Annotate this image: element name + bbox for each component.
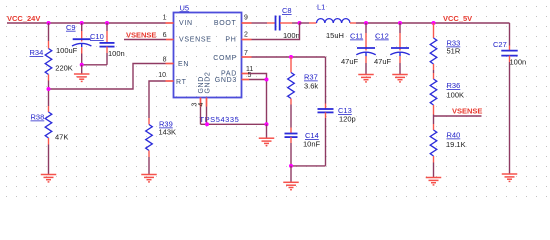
pin 10 RT stub: [166, 80, 174, 82]
junction on rail at C9: [80, 21, 84, 25]
svg-text:15uH: 15uH: [326, 31, 344, 40]
svg-text:C9: C9: [66, 23, 76, 32]
junction C14/C13 gnd: [289, 164, 293, 168]
junction R34/R38/EN: [47, 87, 51, 91]
resistor R39: [149, 81, 166, 118]
pin 3 GND stub: [200, 98, 202, 107]
wire C9/C10 bottoms: [82, 64, 107, 66]
junction gnd net: [265, 122, 269, 126]
capacitor C12: [399, 23, 401, 33]
wire PH to L1 node: [252, 23, 300, 40]
svg-text:EN: EN: [178, 61, 189, 68]
svg-text:19.1K: 19.1K: [446, 140, 466, 149]
junction C9 bottom: [80, 63, 84, 67]
svg-text:47uF: 47uF: [374, 57, 392, 66]
svg-text:C10: C10: [90, 32, 104, 41]
svg-text:R40: R40: [447, 131, 461, 140]
pin 4 GND2 stub: [206, 98, 208, 107]
ground below R40: [426, 177, 442, 179]
svg-text:C8: C8: [282, 6, 292, 15]
wire BOOT to C8: [252, 22, 268, 24]
svg-text:6: 6: [163, 32, 167, 39]
resistor R33: [433, 23, 435, 38]
svg-text:47K: 47K: [55, 133, 68, 142]
ground below PAD/GND3: [266, 124, 268, 138]
svg-text:C27: C27: [493, 40, 507, 49]
junction on rail at C10: [105, 21, 109, 25]
inductor L1: [300, 22, 310, 24]
junction COMP/R37: [289, 55, 293, 59]
pin 11 PAD stub: [242, 73, 250, 75]
resistor R40: [433, 116, 435, 124]
svg-text:7: 7: [244, 50, 248, 57]
svg-text:100n: 100n: [108, 49, 125, 58]
capacitor C10: [106, 23, 108, 31]
svg-text:120p: 120p: [339, 115, 356, 124]
ground below C12: [392, 74, 408, 76]
resistor R37: [290, 57, 292, 73]
junction R33: [432, 21, 436, 25]
resistor R34: [48, 23, 50, 41]
svg-text:100n: 100n: [283, 31, 300, 40]
svg-text:51R: 51R: [447, 47, 461, 56]
svg-text:143K: 143K: [159, 128, 177, 137]
pin 8 EN stub: [166, 63, 174, 65]
resistor R38: [48, 89, 50, 106]
svg-text:220K: 220K: [55, 64, 73, 73]
svg-text:R34: R34: [30, 48, 44, 57]
wire C8 to PH node: [280, 22, 292, 24]
svg-text:3.6k: 3.6k: [304, 82, 318, 91]
wire rail to C27: [509, 23, 511, 46]
resistor R36: [433, 73, 435, 79]
svg-text:2: 2: [244, 32, 248, 39]
svg-text:10: 10: [158, 72, 166, 79]
svg-text:9: 9: [244, 15, 248, 22]
capacitor C14: [290, 128, 292, 134]
svg-text:R38: R38: [31, 113, 45, 122]
wire VSENSE stub to pin 6: [124, 39, 166, 41]
pin 1 VIN stub: [166, 22, 174, 24]
wire EN net: [49, 64, 166, 90]
svg-text:VSENSE: VSENSE: [452, 107, 482, 116]
svg-text:VCC_5V: VCC_5V: [443, 14, 472, 23]
svg-text:VCC_24V: VCC_24V: [7, 14, 40, 23]
svg-text:R36: R36: [447, 81, 461, 90]
svg-text:GND3: GND3: [215, 77, 237, 84]
junction C12: [398, 21, 402, 25]
pin 2 PH stub: [242, 39, 252, 41]
wire C13/C14 bottoms: [291, 165, 326, 167]
svg-text:10nF: 10nF: [303, 140, 321, 149]
capacitor C11: [365, 23, 367, 33]
svg-text:1: 1: [163, 15, 167, 22]
wire PAD/GND3 to ground: [249, 74, 267, 125]
wire pins 3,4 down to ground rail: [200, 107, 202, 125]
svg-text:R37: R37: [304, 73, 318, 82]
svg-text:BOOT: BOOT: [214, 20, 237, 27]
svg-text:L1: L1: [317, 3, 325, 12]
svg-text:8: 8: [163, 57, 167, 64]
wire VCC_24V rail: [7, 22, 166, 24]
capacitor C13 branch: [325, 57, 327, 104]
ground below C11: [358, 74, 374, 76]
ground below C27: [502, 173, 518, 175]
junction on rail at R34: [47, 21, 51, 25]
IC U5 TPS54335 regulator body: [174, 13, 242, 98]
svg-text:C11: C11: [350, 32, 363, 41]
junction C11: [364, 21, 368, 25]
svg-text:PH: PH: [225, 37, 236, 44]
wire COMP net: [252, 56, 326, 58]
svg-text:GND2: GND2: [205, 72, 212, 94]
svg-text:COMP: COMP: [213, 55, 237, 62]
svg-text:VSENSE: VSENSE: [179, 37, 212, 44]
svg-text:VIN: VIN: [179, 20, 193, 27]
pin 6 VSENSE stub: [166, 39, 174, 41]
pin 9 BOOT stub: [242, 22, 252, 24]
svg-text:U5: U5: [180, 3, 190, 12]
junction BOOT/PH/L1: [298, 21, 302, 25]
svg-text:TPS54335: TPS54335: [200, 115, 240, 124]
capacitor C9: [81, 23, 83, 31]
svg-text:RT: RT: [176, 79, 187, 86]
ground below R39: [141, 174, 157, 176]
pin 5 GND3 stub: [242, 79, 250, 81]
ground below C9/C10: [81, 65, 83, 74]
ground below C14: [290, 166, 292, 182]
svg-text:100K: 100K: [447, 91, 465, 100]
junction pin4/gnd wire: [205, 122, 209, 126]
ground below R38: [41, 174, 57, 176]
svg-text:47uF: 47uF: [341, 57, 359, 66]
pin 7 COMP stub: [242, 56, 252, 58]
wire VSENSE stub (right): [434, 115, 482, 117]
junction PAD/GND3: [265, 78, 269, 82]
svg-text:VSENSE: VSENSE: [126, 31, 156, 40]
svg-text:4: 4: [198, 102, 205, 106]
capacitor C8: [275, 16, 277, 31]
svg-text:100n: 100n: [510, 58, 527, 67]
capacitor C27: [509, 46, 511, 51]
svg-text:100uF: 100uF: [56, 46, 78, 55]
wire VCC_5V rail: [356, 22, 510, 24]
svg-text:C12: C12: [375, 32, 389, 41]
